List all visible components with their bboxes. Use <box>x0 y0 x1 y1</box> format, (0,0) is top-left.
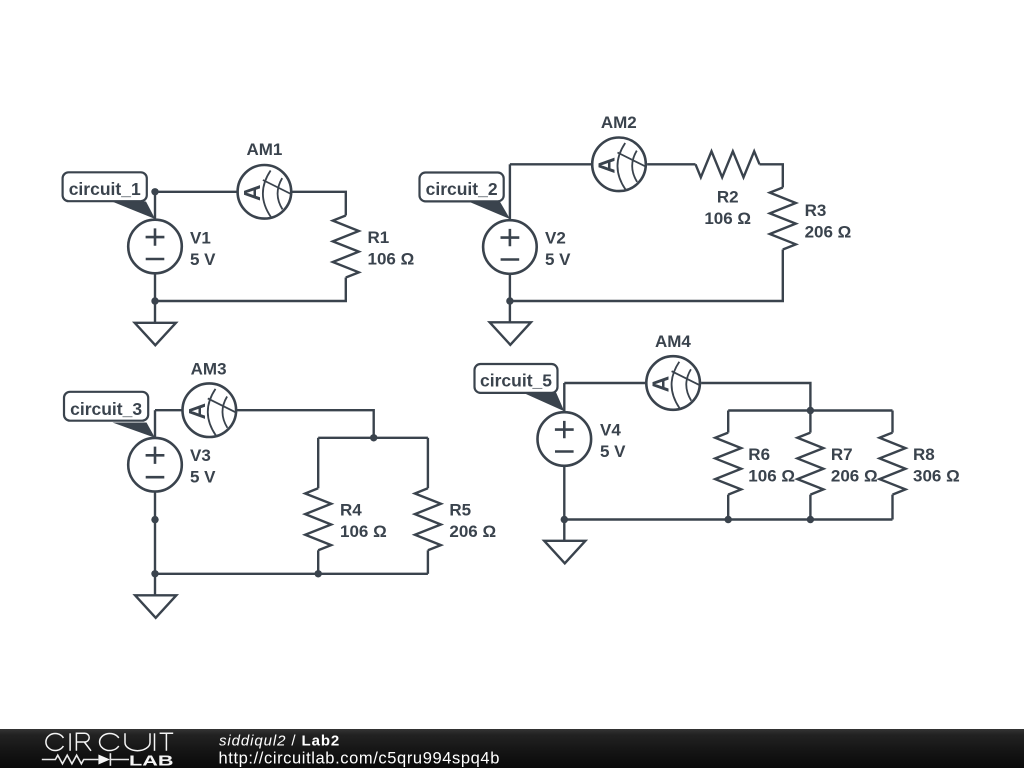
svg-text:R8: R8 <box>913 445 935 464</box>
node junction circuit2 bottom <box>506 297 513 304</box>
svg-text:A: A <box>184 403 210 420</box>
wire R8 top stub <box>891 411 893 433</box>
wire V2 top stub <box>509 164 511 219</box>
ammeter AM1 <box>238 165 292 219</box>
svg-text:206 Ω: 206 Ω <box>831 466 878 485</box>
wire V3 top stub <box>154 410 156 437</box>
svg-text:A: A <box>239 184 265 201</box>
resistor R8 <box>880 433 906 495</box>
wire R6 bottom stub <box>727 495 729 520</box>
wire to AM4 <box>564 382 645 384</box>
ground GND3 <box>135 595 176 618</box>
wire R7 top stub <box>809 411 811 433</box>
wire V4 bottom to ground <box>563 467 565 541</box>
wire V2 bottom to ground <box>509 275 511 323</box>
node junction circuit1 bottom <box>151 297 158 304</box>
net label circuit_5 <box>475 364 565 411</box>
logo CIRCUIT wordmark <box>46 733 173 751</box>
svg-text:5 V: 5 V <box>545 250 571 269</box>
wire R4 bottom stub <box>317 550 319 574</box>
wire bottom rail circuit 4 <box>564 518 892 520</box>
wire AM2 to R2 <box>647 163 695 165</box>
svg-text:R6: R6 <box>748 445 770 464</box>
svg-text:circuit_1: circuit_1 <box>69 179 141 199</box>
svg-text:http://circuitlab.com/c5qru994: http://circuitlab.com/c5qru994spq4b <box>219 750 500 768</box>
voltage source V3 <box>128 438 182 492</box>
logo resistor-diode symbol <box>42 753 129 766</box>
svg-text:206 Ω: 206 Ω <box>449 522 496 541</box>
ground GND4 <box>544 541 585 564</box>
wire R4 top stub <box>317 438 319 489</box>
ammeter AM2 <box>592 138 646 192</box>
node junction circuit3 bottom left <box>151 570 158 577</box>
svg-text:106 Ω: 106 Ω <box>340 522 387 541</box>
resistor R3 <box>770 188 796 250</box>
svg-text:A: A <box>594 157 620 174</box>
svg-text:circuit_5: circuit_5 <box>480 371 552 391</box>
node junction circuit3 left wire <box>151 516 158 523</box>
ground GND2 <box>490 322 531 345</box>
svg-text:R1: R1 <box>368 228 390 247</box>
svg-text:R2: R2 <box>717 187 739 206</box>
wire V4 top stub <box>563 383 565 412</box>
node junction circuit4 top <box>807 407 814 414</box>
svg-text:V3: V3 <box>190 446 211 465</box>
svg-text:R4: R4 <box>340 501 362 520</box>
svg-text:5 V: 5 V <box>600 442 626 461</box>
svg-text:circuit_2: circuit_2 <box>426 179 498 199</box>
footer bar <box>0 729 1024 768</box>
net label circuit_2 <box>420 173 511 220</box>
wire AM3 to junction <box>237 410 374 438</box>
ground GND1 <box>135 323 176 345</box>
svg-text:AM2: AM2 <box>601 113 637 132</box>
node junction circuit4 bottom R7 <box>807 516 814 523</box>
resistor R2 <box>696 151 760 177</box>
node junction circuit4 bottom R6 <box>725 516 732 523</box>
svg-text:AM3: AM3 <box>191 359 227 378</box>
wire mid rail circuit 3 <box>318 437 428 439</box>
svg-text:106 Ω: 106 Ω <box>748 466 795 485</box>
svg-text:circuit_3: circuit_3 <box>70 399 142 419</box>
svg-text:V1: V1 <box>190 228 211 247</box>
wire to AM3 <box>155 409 182 411</box>
svg-text:V4: V4 <box>600 420 621 439</box>
wire V1 bottom to ground <box>154 275 156 323</box>
voltage source V1 <box>128 220 182 274</box>
net label circuit_3 <box>64 392 155 438</box>
svg-text:AM1: AM1 <box>246 140 282 159</box>
node junction circuit3 bottom R4 <box>315 570 322 577</box>
net label circuit_1 <box>63 172 156 219</box>
svg-text:R3: R3 <box>805 201 827 220</box>
svg-text:siddiqul2 / Lab2: siddiqul2 / Lab2 <box>219 733 340 750</box>
svg-text:R7: R7 <box>831 445 853 464</box>
node junction circuit1 top <box>151 188 158 195</box>
svg-text:5 V: 5 V <box>190 468 216 487</box>
wire node to AM1 <box>155 191 237 193</box>
svg-text:V2: V2 <box>545 228 566 247</box>
wire R6 top stub <box>727 411 729 433</box>
wire R2 to R3 top <box>760 164 783 187</box>
wire V3 bottom to ground <box>154 492 156 595</box>
wire R1 bottom to V1 bottom rail <box>155 278 346 302</box>
wire R5 bottom stub <box>427 550 429 574</box>
wire AM4 to junction <box>701 383 810 411</box>
svg-text:R5: R5 <box>449 501 471 520</box>
resistor R5 <box>415 488 441 550</box>
svg-text:206 Ω: 206 Ω <box>805 222 852 241</box>
wire R8 bottom stub <box>891 495 893 520</box>
svg-text:5 V: 5 V <box>190 250 216 269</box>
ammeter AM3 <box>183 383 237 437</box>
svg-text:A: A <box>648 376 674 393</box>
wire AM1 to R1 top <box>292 192 346 216</box>
svg-text:LAB: LAB <box>129 752 174 768</box>
wire V1 top stub <box>154 192 156 219</box>
voltage source V4 <box>538 412 592 466</box>
svg-text:306 Ω: 306 Ω <box>913 466 960 485</box>
node junction circuit3 mid <box>370 434 377 441</box>
svg-text:106 Ω: 106 Ω <box>368 249 415 268</box>
svg-text:106 Ω: 106 Ω <box>704 209 751 228</box>
wire R3 bottom to V2 bottom rail <box>510 250 783 302</box>
wire bottom rail circuit 3 <box>155 573 428 575</box>
resistor R4 <box>305 488 331 550</box>
svg-text:AM4: AM4 <box>655 332 691 351</box>
wire R7 bottom stub <box>809 495 811 520</box>
resistor R7 <box>797 433 823 495</box>
ammeter AM4 <box>646 356 700 410</box>
wire top rail circuit 4 <box>728 409 892 411</box>
wire to AM2 <box>510 163 591 165</box>
node junction circuit4 bottom V4 <box>561 516 568 523</box>
resistor R6 <box>715 433 741 495</box>
voltage source V2 <box>483 220 537 274</box>
resistor R1 <box>333 216 359 278</box>
wire R5 top stub <box>427 438 429 489</box>
